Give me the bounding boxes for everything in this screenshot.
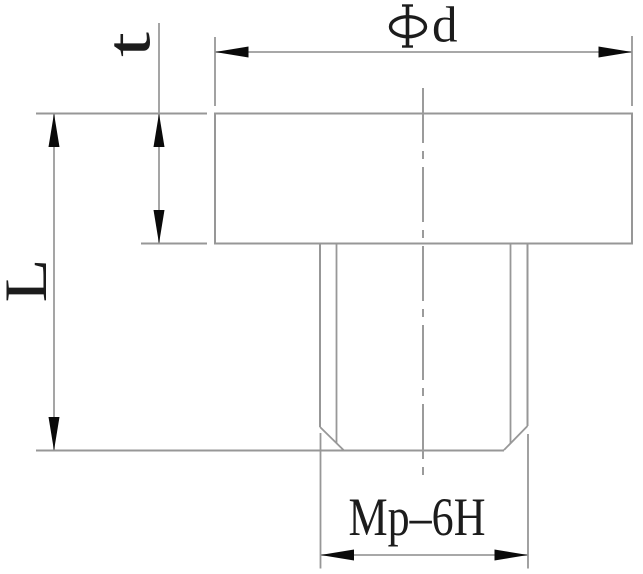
Mp-6H right extension line: [527, 434, 529, 569]
t dimension line: [158, 23, 160, 244]
phi-d right extension line: [631, 36, 633, 106]
shaft left chamfer: [320, 427, 344, 451]
Mp-6H left extension line: [320, 433, 322, 569]
L dimension line: [53, 114, 55, 451]
Mp-6H dimension line: [321, 554, 529, 556]
centerline (dash-dot): [422, 88, 424, 481]
L top arrow: [49, 114, 60, 148]
phi-d dimension line: [215, 51, 632, 53]
label phi symbol (drawn): [391, 5, 426, 47]
phi-d left arrow: [215, 47, 249, 58]
L bottom arrow: [49, 417, 60, 451]
svg-text:L: L: [0, 259, 59, 303]
phi-d left extension line: [214, 37, 216, 106]
svg-text:Mp–6H: Mp–6H: [349, 487, 486, 547]
t bottom arrow: [154, 210, 165, 244]
svg-text:d: d: [432, 0, 458, 54]
shaft outer left line: [319, 245, 321, 428]
head (knob cap) rectangle: [215, 114, 632, 244]
Mp-6H right arrow: [495, 550, 529, 561]
Mp-6H left arrow: [321, 550, 355, 561]
shaft right chamfer: [504, 426, 528, 450]
thread root left line: [336, 245, 338, 444]
t bottom extension line: [141, 243, 207, 245]
shaft outer right line: [527, 245, 529, 427]
top extension line (L and t datum): [36, 113, 207, 115]
svg-text:t: t: [96, 32, 164, 57]
thread root right line: [510, 245, 512, 444]
t top arrow: [154, 114, 165, 148]
shaft bottom edge merged with L bottom extension line: [36, 450, 504, 452]
phi-d right arrow: [599, 47, 633, 58]
